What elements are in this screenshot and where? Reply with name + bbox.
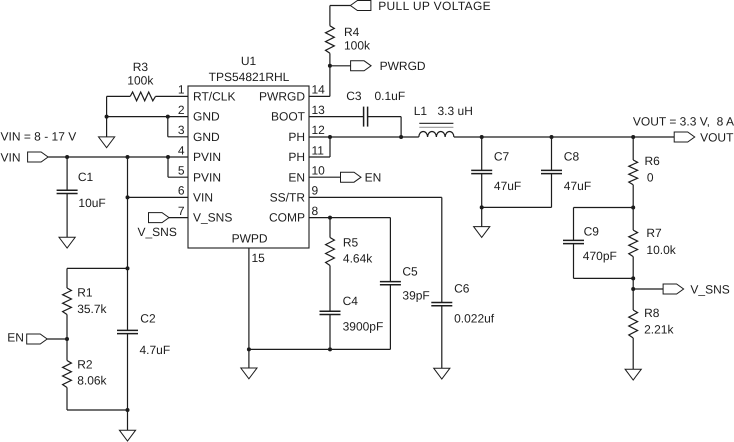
- port VIN: [28, 152, 48, 162]
- svg-text:C7: C7: [494, 150, 510, 164]
- svg-text:R8: R8: [644, 306, 660, 320]
- capacitor C6: [431, 302, 452, 304]
- svg-text:VIN: VIN: [193, 191, 213, 205]
- wire R6 bottom lead: [632, 185, 634, 208]
- svg-text:8.06k: 8.06k: [77, 374, 107, 388]
- svg-text:PVIN: PVIN: [193, 170, 221, 184]
- svg-text:PULL UP VOLTAGE: PULL UP VOLTAGE: [378, 0, 491, 13]
- junction R6/R7/C9: [631, 206, 635, 210]
- wire L1 to VOUT rail: [454, 136, 674, 138]
- svg-text:4.7uF: 4.7uF: [140, 343, 171, 357]
- wire C1 bottom: [66, 194, 68, 238]
- wire C8 top: [551, 137, 553, 170]
- wire C7 bottom: [481, 174, 483, 208]
- junction EN node: [65, 337, 69, 341]
- svg-text:PWRGD: PWRGD: [380, 59, 426, 73]
- port PULL UP VOLTAGE: [350, 1, 371, 11]
- svg-text:COMP: COMP: [269, 211, 305, 225]
- svg-text:10uF: 10uF: [78, 196, 105, 210]
- wire pin13 BOOT to C3: [309, 116, 364, 118]
- capacitor C1: [57, 189, 78, 191]
- wire R1 bottom to EN node: [66, 315, 68, 340]
- ground under C7C8: [474, 227, 490, 238]
- svg-text:C3: C3: [346, 89, 362, 103]
- svg-text:EN: EN: [365, 170, 382, 184]
- svg-text:R3: R3: [133, 60, 149, 74]
- svg-text:R6: R6: [645, 154, 661, 168]
- ground under C1: [59, 237, 75, 248]
- svg-text:GND: GND: [193, 130, 220, 144]
- port V_SNS input: [149, 213, 170, 223]
- wire R1C2 top rail: [67, 267, 128, 269]
- wire R1 top lead: [66, 268, 68, 288]
- wire EN port to divider: [47, 338, 67, 340]
- wire pin7 V_SNS: [169, 217, 188, 219]
- svg-text:R7: R7: [646, 226, 662, 240]
- wire C3 down to PH rail: [400, 117, 402, 137]
- svg-text:100k: 100k: [344, 39, 371, 53]
- svg-text:7: 7: [178, 204, 185, 218]
- wire R7 bottom lead: [632, 257, 634, 279]
- resistor R4: [326, 26, 335, 54]
- wire pin1 RT/CLK to R3: [156, 95, 189, 97]
- svg-text:39pF: 39pF: [402, 289, 429, 303]
- svg-text:5: 5: [178, 164, 185, 178]
- svg-text:47uF: 47uF: [494, 179, 521, 193]
- resistor R1: [63, 288, 72, 315]
- svg-text:C8: C8: [564, 150, 580, 164]
- wire C2 bottom: [127, 334, 129, 410]
- port EN at pin10: [341, 172, 362, 182]
- wire pin6 VIN: [128, 196, 189, 198]
- svg-text:11: 11: [312, 143, 325, 157]
- svg-text:PH: PH: [288, 130, 305, 144]
- svg-text:TPS54821RHL: TPS54821RHL: [209, 70, 290, 84]
- junction C3 on PH rail: [399, 135, 403, 139]
- junction VIN rail / pin5 riser: [166, 155, 170, 159]
- port VOUT output: [674, 132, 695, 142]
- capacitor C2: [117, 329, 138, 331]
- wire pin14 PWRGD: [309, 95, 330, 97]
- wire VIN rail: [48, 156, 188, 158]
- inductor L1: [419, 132, 454, 138]
- svg-text:14: 14: [312, 83, 326, 97]
- junction C8 on VOUT rail: [550, 135, 554, 139]
- wire C9 bottom: [573, 244, 575, 279]
- junction C4 on bottom rail: [328, 347, 332, 351]
- capacitor C4: [320, 310, 341, 312]
- wire R5 top lead: [329, 218, 331, 238]
- wire pin5 riser: [167, 157, 169, 177]
- wire R6 top lead: [632, 137, 634, 160]
- svg-text:BOOT: BOOT: [271, 110, 306, 124]
- svg-text:3.3 uH: 3.3 uH: [438, 104, 473, 118]
- capacitor C5: [380, 281, 401, 283]
- capacitor C3: [363, 107, 365, 127]
- wire ground stem pin15: [248, 349, 250, 368]
- svg-text:U1: U1: [241, 54, 257, 68]
- wire R5 to C4: [329, 266, 331, 312]
- ground under R3: [99, 137, 115, 148]
- port PWRGD output: [351, 61, 372, 71]
- junction C7 on VOUT rail: [480, 135, 484, 139]
- junction R3/GND net: [105, 115, 109, 119]
- svg-text:2: 2: [178, 103, 185, 117]
- ground under C6: [434, 368, 450, 379]
- wire pin12 PH rail to L1: [309, 136, 419, 138]
- svg-text:4: 4: [178, 143, 185, 157]
- junction VIN rail / C2 column: [126, 155, 130, 159]
- wire ground stem C7: [481, 207, 483, 226]
- wire R1C2 bottom rail: [67, 409, 128, 411]
- resistor R6: [629, 160, 638, 185]
- junction pin11 on PH rail: [328, 135, 332, 139]
- junction C2 top rail: [126, 266, 130, 270]
- svg-text:R1: R1: [77, 286, 93, 300]
- svg-text:EN: EN: [7, 331, 24, 345]
- wire R3 left: [107, 95, 131, 97]
- junction V_SNS tap: [631, 287, 635, 291]
- ground under C2: [119, 430, 135, 441]
- junction R7/C9 bottom: [631, 276, 635, 280]
- svg-text:12: 12: [312, 123, 326, 137]
- wire pin3 GND: [168, 136, 188, 138]
- junction pin3 on GND net: [166, 115, 170, 119]
- junction bottom rail / ground: [126, 408, 130, 412]
- svg-text:C6: C6: [454, 281, 470, 295]
- wire C1 top: [66, 157, 68, 190]
- capacitor C9: [563, 239, 584, 241]
- svg-text:8: 8: [312, 204, 319, 218]
- svg-text:R4: R4: [344, 25, 360, 39]
- svg-text:V_SNS: V_SNS: [193, 211, 232, 225]
- wire pin3 GND riser: [167, 117, 169, 137]
- svg-text:1: 1: [178, 83, 185, 97]
- svg-text:R2: R2: [77, 357, 93, 371]
- resistor R3: [130, 92, 155, 101]
- svg-text:C4: C4: [343, 294, 359, 308]
- wire R7 top lead: [632, 208, 634, 231]
- wire pin11 PH: [309, 156, 330, 158]
- svg-text:SS/TR: SS/TR: [270, 191, 306, 205]
- svg-text:0.022uf: 0.022uf: [454, 312, 495, 326]
- svg-text:V_SNS: V_SNS: [138, 225, 177, 239]
- wire C6 bottom: [441, 306, 443, 368]
- wire pullup to R4: [329, 6, 331, 26]
- wire C4 bottom: [329, 315, 331, 350]
- wire R2 top lead: [66, 339, 68, 361]
- wire C7 top: [481, 137, 483, 170]
- wire pin15 PWPD drop: [248, 248, 250, 349]
- junction pin6 on VIN column: [126, 195, 130, 199]
- svg-text:100k: 100k: [127, 74, 154, 88]
- wire R4 to pin14: [329, 53, 331, 96]
- resistor R8: [629, 310, 638, 338]
- svg-text:C2: C2: [140, 311, 156, 325]
- wire VIN column down to R1C2 rail: [127, 157, 129, 268]
- svg-text:3: 3: [178, 123, 185, 137]
- svg-text:10.0k: 10.0k: [646, 243, 676, 257]
- svg-text:2.21k: 2.21k: [644, 323, 674, 337]
- wire C8 bottom: [551, 174, 553, 208]
- port V_SNS output: [663, 284, 684, 294]
- wire C5 drop: [389, 218, 391, 282]
- svg-text:470pF: 470pF: [583, 249, 617, 263]
- ground under R8: [625, 369, 641, 380]
- svg-text:35.7k: 35.7k: [77, 302, 107, 316]
- capacitor C8: [541, 169, 562, 171]
- svg-text:VIN: VIN: [1, 151, 21, 165]
- svg-text:GND: GND: [193, 110, 220, 124]
- svg-text:PVIN: PVIN: [193, 150, 221, 164]
- svg-text:C1: C1: [78, 170, 94, 184]
- svg-text:6: 6: [178, 184, 185, 198]
- wire C2 top: [127, 268, 129, 330]
- capacitor C7: [471, 169, 492, 171]
- wire pin9 SS/TR: [309, 196, 442, 198]
- svg-text:EN: EN: [288, 170, 305, 184]
- wire R8 bottom lead: [632, 338, 634, 369]
- resistor R2: [63, 361, 72, 388]
- svg-text:C5: C5: [402, 264, 418, 278]
- svg-text:RT/CLK: RT/CLK: [193, 90, 235, 104]
- junction C1 on VIN rail: [65, 155, 69, 159]
- wire C9 top: [573, 208, 575, 241]
- svg-text:V_SNS: V_SNS: [690, 283, 729, 297]
- ground under PWPD rail: [241, 368, 257, 379]
- resistor R7: [629, 230, 638, 257]
- junction pin15 rail ground: [247, 347, 251, 351]
- svg-text:VIN = 8 - 17 V: VIN = 8 - 17 V: [1, 130, 77, 144]
- wire pin8 COMP: [309, 217, 390, 219]
- junction C7 ground: [480, 205, 484, 209]
- wire pin11 riser: [329, 137, 331, 157]
- wire to V_SNS tap: [632, 278, 634, 310]
- svg-text:0: 0: [647, 171, 654, 185]
- svg-text:L1: L1: [414, 104, 428, 118]
- svg-text:13: 13: [312, 103, 326, 117]
- wire COMP bottom rail: [249, 348, 391, 350]
- wire C7C8 bottom rail: [482, 206, 552, 208]
- wire GND stem: [106, 117, 108, 137]
- wire ground stem C2: [127, 410, 129, 430]
- wire pin2 GND: [107, 116, 188, 118]
- wire V_SNS tap to port: [633, 288, 663, 290]
- junction R5 on COMP: [328, 216, 332, 220]
- svg-text:PWPD: PWPD: [232, 232, 268, 246]
- svg-text:C9: C9: [584, 225, 600, 239]
- svg-text:VOUT = 3.3 V, 8 A: VOUT = 3.3 V, 8 A: [633, 115, 734, 129]
- svg-text:VOUT: VOUT: [700, 131, 734, 145]
- wire C3 to PH corner: [368, 116, 402, 118]
- svg-text:9: 9: [312, 184, 319, 198]
- svg-text:4.64k: 4.64k: [343, 252, 373, 266]
- wire pin5 PVIN: [168, 176, 188, 178]
- IC U1 TPS54821RHL body: [188, 86, 309, 248]
- svg-text:15: 15: [252, 251, 266, 265]
- svg-text:0.1uF: 0.1uF: [375, 89, 406, 103]
- junction PWRGD tap: [328, 64, 332, 68]
- wire C9 bottom rail: [574, 277, 634, 279]
- svg-text:PH: PH: [288, 150, 305, 164]
- svg-text:10: 10: [312, 164, 326, 178]
- wire R2 bottom lead: [66, 388, 68, 411]
- svg-text:PWRGD: PWRGD: [259, 90, 305, 104]
- wire C6 top: [441, 197, 443, 302]
- wire C5 bottom: [389, 285, 391, 349]
- port EN input: [27, 334, 48, 344]
- svg-text:R5: R5: [343, 236, 359, 250]
- wire C9 top rail: [574, 207, 634, 209]
- wire R3 down to GND net: [106, 96, 108, 116]
- wire pin10 EN: [309, 176, 341, 178]
- junction R6 on VOUT rail: [631, 135, 635, 139]
- wire PWRGD tap: [330, 65, 351, 67]
- resistor R5: [326, 238, 335, 266]
- svg-text:3900pF: 3900pF: [343, 319, 384, 333]
- wire pullup port: [330, 5, 351, 7]
- svg-text:47uF: 47uF: [564, 179, 591, 193]
